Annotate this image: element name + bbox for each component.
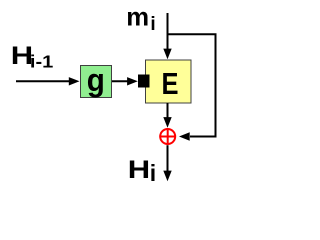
- wire g to E: [112, 77, 138, 85]
- wire m_i into E: [163, 13, 171, 59]
- wire E output to XOR: [163, 103, 171, 128]
- node H_{i-1} label: [11, 42, 54, 72]
- wire H_{i-1} to g: [16, 77, 80, 85]
- node H_i label: [128, 156, 156, 186]
- svg-text:g: g: [87, 62, 105, 98]
- wire feed-forward branch: [168, 34, 216, 140]
- block g: [81, 62, 112, 98]
- key input square: [138, 75, 150, 88]
- svg-text:i: i: [150, 14, 155, 35]
- svg-text:i: i: [150, 160, 156, 186]
- svg-text:E: E: [162, 67, 179, 101]
- svg-text:m: m: [126, 3, 149, 31]
- svg-text:H: H: [128, 156, 150, 184]
- node m_i label: [126, 3, 155, 35]
- block E: [146, 60, 192, 103]
- wire XOR output to H_i: [163, 145, 171, 181]
- XOR gate: [159, 128, 176, 145]
- svg-text:i-1: i-1: [30, 52, 54, 72]
